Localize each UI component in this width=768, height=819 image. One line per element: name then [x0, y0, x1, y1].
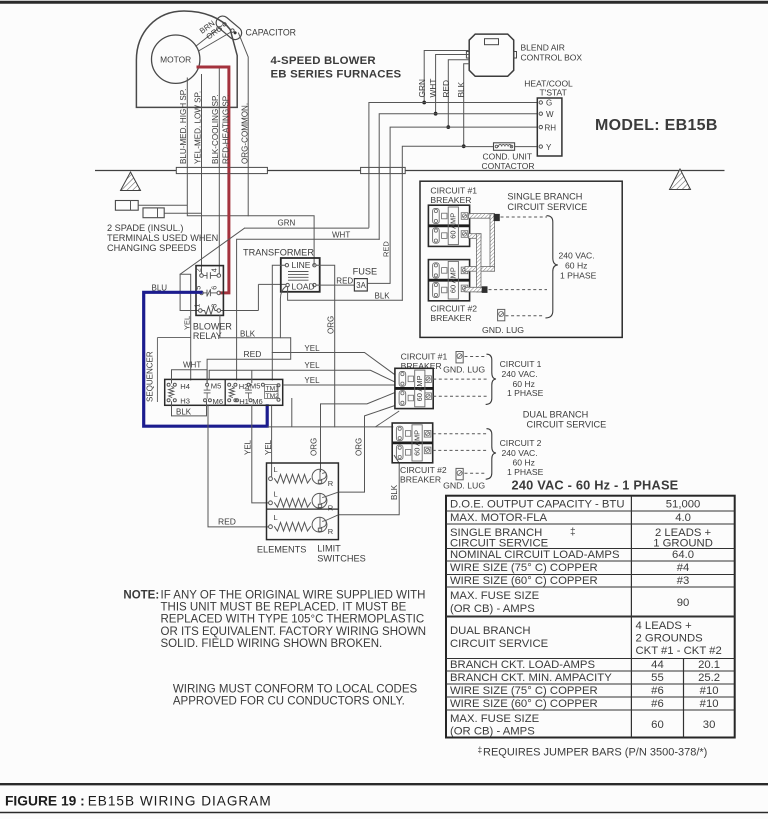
svg-text:WIRE SIZE (60° C) COPPER: WIRE SIZE (60° C) COPPER: [450, 575, 598, 587]
svg-text:CKT #1 - CKT #2: CKT #1 - CKT #2: [636, 645, 722, 657]
svg-text:1 PHASE: 1 PHASE: [560, 271, 597, 281]
svg-text:H3: H3: [180, 397, 190, 406]
wires into blend air box: [424, 51, 469, 103]
breaker CB1 dual: [395, 368, 433, 408]
svg-text:YEL: YEL: [243, 439, 252, 455]
svg-text:GRN: GRN: [417, 79, 427, 97]
hatched bus bars: [469, 214, 495, 219]
svg-text:64.0: 64.0: [672, 549, 694, 561]
svg-text:90: 90: [677, 597, 690, 609]
svg-text:FIGURE 19 :EB15B WIRING DIAGRA: FIGURE 19 :EB15B WIRING DIAGRAM: [5, 794, 272, 809]
svg-text:240 VAC.: 240 VAC.: [502, 369, 538, 379]
svg-text:APPROVED FOR CU CONDUCTORS ONL: APPROVED FOR CU CONDUCTORS ONLY.: [173, 696, 405, 708]
svg-text:GND. LUG: GND. LUG: [443, 481, 485, 491]
blend air control box: [469, 34, 514, 76]
svg-text:FUSE: FUSE: [353, 267, 378, 277]
svg-text:CIRCUIT #1: CIRCUIT #1: [430, 186, 477, 196]
wire yel to spade 2: [164, 212, 201, 214]
svg-text:THIS UNIT MUST BE REPLACED. IT: THIS UNIT MUST BE REPLACED. IT MUST BE: [161, 602, 407, 614]
wire BLU high speed: [187, 78, 314, 265]
wire YEL jog to sequencer: [180, 274, 191, 380]
svg-text:CHANGING SPEEDS: CHANGING SPEEDS: [107, 243, 196, 253]
svg-text:EB SERIES FURNACES: EB SERIES FURNACES: [271, 69, 402, 81]
svg-text:CIRCUIT 2: CIRCUIT 2: [500, 438, 542, 448]
svg-text:30: 30: [703, 719, 716, 731]
svg-text:D.O.E. OUTPUT CAPACITY - BTU: D.O.E. OUTPUT CAPACITY - BTU: [450, 499, 625, 511]
svg-text:SWITCHES: SWITCHES: [317, 554, 366, 564]
svg-text:GRN: GRN: [278, 219, 296, 228]
svg-text:1: 1: [193, 304, 202, 308]
svg-text:R: R: [328, 503, 334, 512]
junction dots: [422, 101, 426, 105]
svg-text:M5: M5: [211, 382, 222, 391]
svg-text:YEL: YEL: [304, 361, 320, 370]
svg-text:ORG: ORG: [355, 438, 364, 456]
svg-text:REPLACED WITH TYPE 105°C THERM: REPLACED WITH TYPE 105°C THERMOPLASTIC: [161, 614, 425, 626]
svg-text:(OR CB) - AMPS: (OR CB) - AMPS: [450, 725, 535, 737]
svg-text:BREAKER: BREAKER: [400, 475, 441, 485]
svg-text:51,000: 51,000: [666, 499, 701, 511]
svg-text:WHT: WHT: [332, 230, 350, 239]
svg-text:R: R: [328, 527, 334, 536]
svg-text:4-SPEED BLOWER: 4-SPEED BLOWER: [271, 55, 376, 67]
svg-text:SOLID. FIELD WIRING SHOWN BROK: SOLID. FIELD WIRING SHOWN BROKEN.: [161, 638, 383, 650]
capacitor C1: [214, 14, 245, 43]
svg-text:CIRCUIT SERVICE: CIRCUIT SERVICE: [450, 537, 549, 549]
svg-text:GND. LUG: GND. LUG: [443, 364, 485, 374]
svg-text:MODEL: EB15B: MODEL: EB15B: [595, 117, 718, 134]
svg-text:20.1: 20.1: [698, 659, 720, 671]
svg-text:BLU: BLU: [152, 283, 168, 292]
footer rules: [0, 783, 768, 785]
breaker CB2 single: [428, 260, 469, 301]
svg-text:WIRE SIZE (60° C) COPPER: WIRE SIZE (60° C) COPPER: [450, 698, 598, 710]
spec table: [446, 496, 735, 738]
svg-text:BLEND AIR: BLEND AIR: [521, 42, 565, 52]
svg-text:YEL: YEL: [182, 316, 191, 330]
limit switch 1: [312, 469, 327, 484]
element 3: [269, 525, 273, 529]
svg-text:240 VAC - 60 Hz - 1 PHASE: 240 VAC - 60 Hz - 1 PHASE: [512, 478, 679, 493]
top rule: [0, 1, 768, 4]
svg-text:TRANSFORMER: TRANSFORMER: [243, 248, 314, 258]
svg-text:H4: H4: [180, 382, 190, 391]
svg-text:ORG: ORG: [310, 438, 319, 456]
svg-text:RED: RED: [381, 241, 390, 257]
svg-text:ORG: ORG: [326, 316, 335, 334]
svg-text:44: 44: [651, 659, 664, 671]
svg-text:RED: RED: [244, 349, 262, 359]
svg-text:BREAKER: BREAKER: [430, 313, 471, 323]
svg-text:1 PHASE: 1 PHASE: [507, 467, 544, 477]
svg-text:CAPACITOR: CAPACITOR: [246, 28, 297, 38]
svg-text:L: L: [274, 489, 278, 498]
svg-text:CONTACTOR: CONTACTOR: [482, 161, 535, 171]
svg-text:#10: #10: [700, 685, 719, 697]
breaker CB2 dual: [392, 423, 433, 463]
wire ORG motor to capacitor: [199, 32, 232, 51]
svg-text:REQUIRES JUMPER BARS (P/N 3500: REQUIRES JUMPER BARS (P/N 3500-378/*): [483, 747, 707, 759]
svg-text:4 LEADS +: 4 LEADS +: [636, 620, 693, 632]
svg-text:Y: Y: [546, 143, 552, 152]
svg-text:#10: #10: [700, 698, 719, 710]
svg-text:BLK: BLK: [176, 408, 192, 417]
wire relay 3: [221, 310, 259, 312]
brace dual 2: [486, 429, 496, 480]
svg-text:5: 5: [194, 286, 203, 290]
wire WHT to transformer line: [237, 239, 380, 380]
svg-text:TERMINALS USED WHEN: TERMINALS USED WHEN: [107, 233, 218, 243]
wire YEL to element 2: [252, 406, 269, 503]
motor M1: [152, 35, 200, 83]
svg-text:BLK: BLK: [240, 329, 256, 338]
svg-text:2: 2: [194, 268, 203, 272]
svg-text:YEL: YEL: [264, 439, 273, 455]
svg-text:BLK: BLK: [375, 291, 391, 300]
svg-text:BRANCH CKT. MIN. AMPACITY: BRANCH CKT. MIN. AMPACITY: [450, 672, 612, 684]
wire RED 24v to sequencer: [207, 338, 291, 383]
svg-text:R: R: [328, 479, 334, 488]
svg-text:DUAL BRANCH: DUAL BRANCH: [523, 410, 589, 420]
terminal strip right: [361, 167, 406, 173]
svg-text:LINE: LINE: [292, 260, 311, 270]
breaker CB1 single: [428, 205, 469, 246]
ground left: [121, 172, 141, 191]
svg-text:#6: #6: [651, 698, 664, 710]
svg-text:IF ANY OF THE ORIGINAL WIRE SU: IF ANY OF THE ORIGINAL WIRE SUPPLIED WIT…: [161, 590, 426, 602]
svg-text:#6: #6: [651, 685, 664, 697]
svg-text:55: 55: [651, 672, 664, 684]
svg-text:4: 4: [210, 268, 219, 272]
svg-text:BLU-MED. HIGH SP.: BLU-MED. HIGH SP.: [179, 89, 188, 164]
svg-text:RH: RH: [545, 123, 557, 132]
svg-text:BLK: BLK: [456, 81, 466, 97]
svg-text:CIRCUIT 1: CIRCUIT 1: [500, 359, 542, 369]
wires to t-stat: [424, 102, 537, 104]
wire LINE left stub: [272, 265, 285, 380]
svg-text:T'STAT: T'STAT: [540, 88, 567, 98]
svg-text:G: G: [546, 99, 552, 108]
svg-text:GND. LUG: GND. LUG: [482, 325, 524, 335]
svg-text:COND. UNIT: COND. UNIT: [483, 152, 533, 162]
wire YEL 1: [272, 353, 394, 375]
terminal strip left: [176, 167, 267, 173]
svg-text:YEL: YEL: [304, 376, 320, 385]
svg-text:1 GROUND: 1 GROUND: [653, 537, 713, 549]
svg-text:LOAD: LOAD: [292, 281, 315, 291]
svg-text:60: 60: [651, 719, 664, 731]
svg-text:WIRE SIZE (75° C) COPPER: WIRE SIZE (75° C) COPPER: [450, 685, 598, 697]
svg-text:#3: #3: [677, 575, 690, 587]
svg-text:RED: RED: [441, 80, 451, 98]
blower relay K1: [196, 266, 223, 316]
wire YEL 3: [283, 384, 395, 386]
wire ORG 1: [321, 393, 395, 471]
ground lug dual2: [456, 468, 463, 479]
svg-text:240 VAC.: 240 VAC.: [559, 251, 595, 261]
wire YEL to element 1: [271, 406, 273, 477]
svg-text:WHT: WHT: [183, 360, 201, 369]
svg-text:H1: H1: [239, 397, 249, 406]
svg-text:60 AMP: 60 AMP: [413, 430, 422, 456]
svg-text:NOMINAL CIRCUIT LOAD-AMPS: NOMINAL CIRCUIT LOAD-AMPS: [450, 549, 620, 561]
svg-text:OR ITS EQUIVALENT. FACTORY WIR: OR ITS EQUIVALENT. FACTORY WIRING SHOWN: [161, 626, 427, 638]
wire ORG 2: [338, 406, 395, 493]
svg-text:ORG-COMMON.: ORG-COMMON.: [240, 103, 249, 164]
svg-text:BLK: BLK: [390, 484, 399, 500]
wires dropping to chassis: [369, 103, 424, 228]
wire RED heating (thick): [198, 67, 229, 293]
svg-text:60 AMP: 60 AMP: [449, 267, 458, 293]
svg-text:L: L: [274, 465, 278, 474]
svg-text:LIMIT: LIMIT: [317, 543, 341, 553]
svg-text:ELEMENTS: ELEMENTS: [257, 545, 307, 555]
svg-text:CIRCUIT SERVICE: CIRCUIT SERVICE: [527, 420, 607, 430]
svg-text:60 Hz: 60 Hz: [565, 261, 587, 271]
limit switch 3: [312, 517, 327, 532]
svg-text:2 SPADE (INSUL.): 2 SPADE (INSUL.): [107, 223, 183, 233]
svg-text:CIRCUIT #2: CIRCUIT #2: [430, 304, 477, 314]
wire fuse to chassis red: [367, 282, 390, 284]
svg-text:RED: RED: [336, 277, 353, 286]
wire BLU thick: [144, 292, 268, 426]
svg-text:CONTROL BOX: CONTROL BOX: [521, 52, 583, 62]
wire load to fuse: [316, 284, 354, 286]
svg-text:60 AMP: 60 AMP: [449, 213, 458, 239]
stub element2: [326, 492, 339, 497]
ground lug dual1: [456, 352, 463, 363]
svg-text:NOTE:: NOTE:: [123, 590, 159, 602]
chassis line: [95, 170, 725, 172]
single branch service box: [420, 181, 622, 337]
wire ORG transformer line-right down: [316, 265, 335, 427]
svg-text:BLOWER: BLOWER: [193, 321, 233, 331]
wire ORG common: [239, 33, 249, 216]
wire BLK relay coil to load: [220, 286, 286, 338]
svg-text:MAX. MOTOR-FLA: MAX. MOTOR-FLA: [450, 512, 548, 524]
brace dual 1: [486, 354, 496, 404]
wire YEL low speed: [201, 74, 203, 274]
wht jumper H4-M5: [172, 370, 208, 383]
svg-text:W: W: [546, 110, 554, 119]
spade terminal 2: [143, 208, 164, 218]
wire to load left: [258, 283, 285, 285]
element 1: [269, 477, 273, 481]
svg-text:MOTOR: MOTOR: [160, 54, 191, 64]
svg-text:TM2: TM2: [266, 393, 280, 400]
svg-text:240 VAC.: 240 VAC.: [502, 448, 538, 458]
svg-text:RED: RED: [218, 517, 236, 527]
ground lug single: [498, 309, 505, 320]
stub element3: [326, 515, 339, 521]
svg-text:BREAKER: BREAKER: [401, 361, 442, 371]
svg-text:DUAL BRANCH: DUAL BRANCH: [450, 625, 531, 637]
svg-text:YEL: YEL: [304, 344, 320, 353]
svg-text:M6: M6: [213, 397, 224, 406]
svg-text:WIRING MUST CONFORM TO LOCAL C: WIRING MUST CONFORM TO LOCAL CODES: [173, 684, 418, 696]
svg-text:‡: ‡: [478, 745, 483, 755]
cond unit contactor coil: [494, 143, 515, 151]
svg-text:BREAKER: BREAKER: [430, 195, 471, 205]
svg-text:SINGLE BRANCH: SINGLE BRANCH: [507, 192, 582, 202]
svg-text:MAX. FUSE SIZE: MAX. FUSE SIZE: [450, 590, 540, 602]
limit switch 2: [312, 493, 327, 508]
svg-text:6: 6: [210, 286, 219, 290]
svg-text:CIRCUIT SERVICE: CIRCUIT SERVICE: [450, 638, 549, 650]
svg-text:RELAY: RELAY: [193, 331, 222, 341]
wire diagonal to relay: [180, 228, 245, 310]
svg-text:2 GROUNDS: 2 GROUNDS: [636, 632, 704, 644]
svg-text:L: L: [274, 513, 278, 522]
wire RED to element 3: [208, 406, 269, 527]
brace single: [546, 216, 558, 318]
svg-text:CIRCUIT SERVICE: CIRCUIT SERVICE: [507, 202, 587, 212]
svg-text:‡: ‡: [570, 527, 576, 538]
svg-text:WHT: WHT: [428, 79, 438, 98]
svg-text:RED-HEATING SP.: RED-HEATING SP.: [222, 95, 231, 164]
svg-text:3A: 3A: [356, 281, 366, 290]
svg-text:25.2: 25.2: [698, 672, 720, 684]
svg-text:(OR CB) - AMPS: (OR CB) - AMPS: [450, 603, 535, 615]
svg-text:60 AMP: 60 AMP: [415, 375, 424, 401]
svg-text:BLK-COOLING SP.: BLK-COOLING SP.: [211, 94, 220, 164]
wire YEL 2: [209, 370, 394, 382]
dashed service leads: [501, 216, 548, 218]
spade terminal 1: [115, 201, 138, 211]
wire BLK to element 3: [338, 456, 399, 515]
ground right: [670, 169, 691, 190]
stub element1: [320, 471, 322, 473]
wire BLK tstat-Y to load: [288, 287, 403, 301]
elements box: [267, 463, 339, 540]
svg-text:1 PHASE: 1 PHASE: [507, 388, 544, 398]
svg-text:SEQUENCER: SEQUENCER: [146, 351, 155, 402]
svg-text:4.0: 4.0: [675, 512, 691, 524]
wire GRN horizontal: [245, 227, 369, 229]
svg-text:WIRE SIZE (75° C) COPPER: WIRE SIZE (75° C) COPPER: [450, 562, 598, 574]
wire to breaker 2 top: [268, 426, 394, 428]
blower housing: [136, 11, 237, 107]
element 2: [269, 501, 273, 505]
svg-text:M6: M6: [252, 397, 263, 406]
svg-text:YEL-MED. LOW SP.: YEL-MED. LOW SP.: [193, 91, 202, 164]
svg-text:MAX. FUSE SIZE: MAX. FUSE SIZE: [450, 713, 540, 725]
svg-text:H2: H2: [239, 382, 249, 391]
wire BLK cooling: [218, 69, 220, 274]
blk jumper H3-M6: [172, 402, 207, 416]
svg-text:BRANCH CKT. LOAD-AMPS: BRANCH CKT. LOAD-AMPS: [450, 659, 595, 671]
wire blu to spade 1: [138, 204, 187, 206]
sequencer label bracket: [157, 337, 191, 339]
wire BRN motor to capacitor: [196, 26, 223, 47]
svg-text:#4: #4: [677, 562, 690, 574]
